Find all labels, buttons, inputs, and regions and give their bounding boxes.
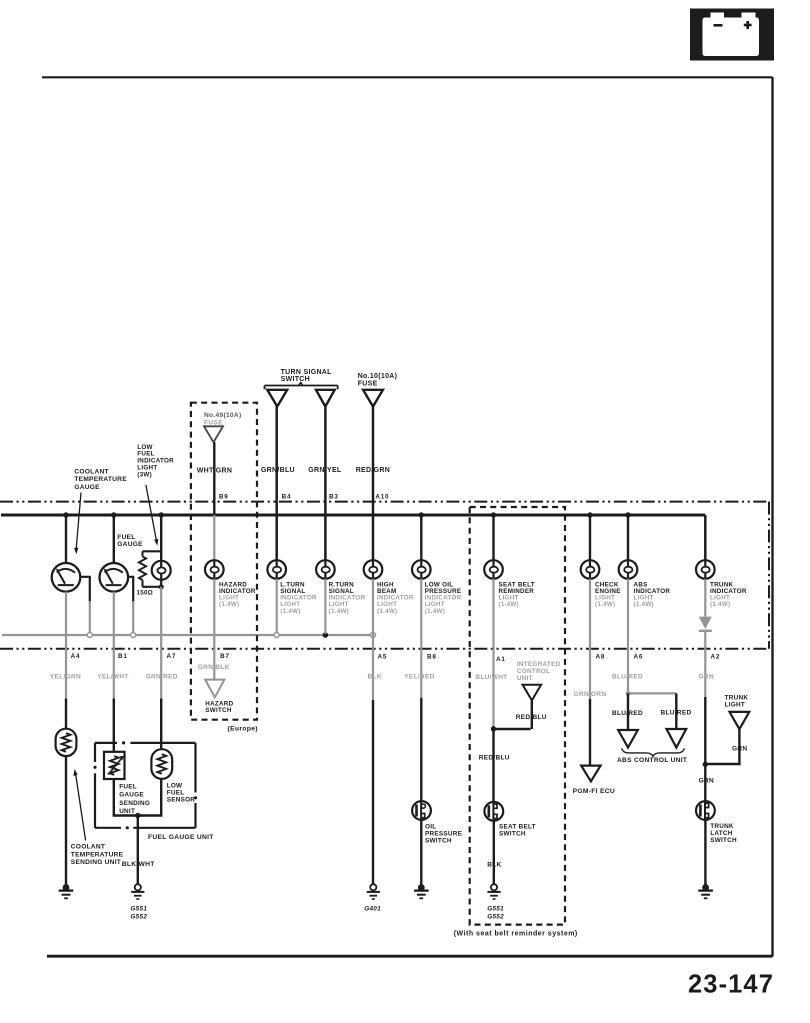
svg-text:SWITCH: SWITCH: [425, 838, 452, 845]
svg-text:YEL/RED: YEL/RED: [404, 673, 434, 680]
wire R turn bulb to gray bus: [324, 579, 326, 634]
svg-text:(1.4W): (1.4W): [634, 601, 654, 608]
svg-text:SWITCH: SWITCH: [499, 831, 526, 838]
wire BLU/RED right branch to ABS control unit: [661, 693, 692, 729]
svg-text:G552: G552: [487, 913, 504, 920]
svg-text:GAUGE: GAUGE: [119, 792, 144, 799]
fuel gauge unit box: [93, 741, 214, 840]
svg-text:BLU/RED: BLU/RED: [612, 673, 643, 680]
svg-text:FUEL GAUGE UNIT: FUEL GAUGE UNIT: [148, 834, 214, 841]
wire coolant sending unit to ground: [65, 756, 67, 884]
svg-text:UNIT: UNIT: [517, 675, 533, 682]
fuel gauge sending unit (variable resistor): [104, 752, 150, 815]
svg-text:GRN/BLU: GRN/BLU: [261, 467, 295, 474]
label L turn signal indicator light: [280, 581, 317, 614]
svg-text:YEL/GRN: YEL/GRN: [50, 673, 81, 680]
svg-text:(1.4W): (1.4W): [329, 608, 349, 615]
svg-text:TRUNK: TRUNK: [725, 695, 749, 702]
svg-text:A2: A2: [711, 654, 721, 661]
wire YEL/RED to B8 oil pressure switch: [404, 579, 436, 802]
svg-text:COOLANT: COOLANT: [74, 468, 108, 475]
illumination return bus wire (gray): [2, 634, 373, 636]
fuse No.49(10A): [204, 412, 241, 442]
wire YEL/GRN to A4 (coolant temp sending unit): [50, 592, 81, 730]
ground G401: [364, 884, 381, 913]
wire BLK high beam to ground: [368, 579, 388, 884]
svg-text:GRN/BLK: GRN/BLK: [198, 664, 230, 671]
wire BLU/RED to A6 ABS control unit: [612, 579, 643, 694]
wire YEL/WHT to B1 (fuel gauge sending unit): [97, 592, 128, 753]
svg-text:(With seat belt reminder syste: (With seat belt reminder system): [454, 931, 578, 938]
svg-text:(1.4W): (1.4W): [280, 608, 300, 615]
svg-text:GRN: GRN: [699, 673, 714, 680]
label R turn signal indicator light: [329, 581, 366, 614]
svg-text:SEAT BELT: SEAT BELT: [499, 824, 536, 831]
turn signal switch label and bracket: [265, 369, 338, 389]
wire hazard bulb feed (gray below bus): [213, 515, 215, 561]
svg-text:GRN/ORN: GRN/ORN: [574, 691, 607, 698]
svg-text:A10: A10: [375, 494, 389, 501]
wire GRN/BLU to B4: [261, 407, 295, 561]
svg-text:LATCH: LATCH: [710, 830, 733, 837]
svg-text:G401: G401: [364, 906, 381, 913]
ABS wire split junction: [626, 691, 677, 696]
svg-text:TRUNK: TRUNK: [710, 823, 734, 830]
svg-text:(3W): (3W): [137, 471, 152, 478]
hazard switch connector triangle: [205, 680, 233, 714]
svg-text:SENDING: SENDING: [119, 800, 150, 807]
svg-text:23-147: 23-147: [688, 970, 774, 998]
trunk wire junction dot: [703, 762, 708, 767]
ground trunk latch switch: [698, 883, 713, 898]
trunk latch switch: [696, 801, 737, 844]
svg-text:BLU/RED: BLU/RED: [661, 710, 692, 717]
label integrated control unit: [517, 661, 561, 682]
resistor 150 ohm: [137, 551, 162, 596]
svg-text:WHT/GRN: WHT/GRN: [197, 468, 233, 475]
svg-text:ABS CONTROL UNIT: ABS CONTROL UNIT: [617, 757, 687, 764]
svg-text:B8: B8: [427, 654, 437, 661]
svg-text:GAUGE: GAUGE: [117, 541, 143, 548]
svg-text:FUSE: FUSE: [358, 381, 378, 388]
svg-text:B4: B4: [282, 494, 292, 501]
svg-text:BLK: BLK: [487, 861, 501, 868]
svg-text:(1.4W): (1.4W): [377, 608, 397, 615]
page number 23-147: [688, 970, 774, 998]
svg-text:A6: A6: [634, 654, 644, 661]
svg-text:GAUGE: GAUGE: [74, 484, 100, 491]
svg-text:SWITCH: SWITCH: [710, 837, 737, 844]
svg-text:BLU/WHT: BLU/WHT: [475, 674, 507, 681]
wire BLU/RED left branch to ABS control unit: [612, 693, 643, 730]
oil pressure switch: [412, 801, 463, 845]
seat belt reminder dashed box: [454, 507, 578, 938]
label fuel gauge: [117, 534, 143, 548]
hazard circuit dashed box (Europe): [191, 403, 258, 733]
wire GRN/YEL to B3: [308, 407, 342, 561]
coolant temperature sending unit: [56, 729, 77, 756]
ground coolant temperature sending unit: [59, 883, 74, 898]
wire BLU/WHT to A1 seat belt switch: [475, 579, 509, 802]
fuse No.10(10A): [358, 373, 398, 406]
svg-text:CONTROL: CONTROL: [517, 668, 550, 675]
fuel gauge: [100, 515, 134, 634]
low oil pressure indicator light bulb: [412, 515, 431, 579]
label low fuel indicator light (3W): [137, 444, 174, 546]
low fuel indicator light bulb: [152, 515, 171, 589]
svg-text:A8: A8: [596, 654, 606, 661]
svg-text:INTEGRATED: INTEGRATED: [517, 661, 561, 668]
svg-text:RED/GRN: RED/GRN: [356, 467, 390, 474]
L turn signal indicator light bulb: [267, 560, 286, 580]
label check engine light: [595, 581, 621, 608]
svg-text:RED/BLU: RED/BLU: [479, 755, 510, 762]
svg-text:G552: G552: [130, 914, 147, 921]
trunk indicator light bulb: [696, 560, 715, 580]
svg-text:SENSOR: SENSOR: [167, 797, 196, 804]
svg-text:(Europe): (Europe): [228, 725, 258, 732]
svg-text:B3: B3: [329, 494, 339, 501]
svg-text:YEL/WHT: YEL/WHT: [97, 673, 128, 680]
svg-text:TURN SIGNAL: TURN SIGNAL: [281, 369, 333, 376]
svg-text:BLU/RED: BLU/RED: [612, 710, 643, 717]
wire BLK/WHT to ground G551 G552: [113, 779, 163, 884]
svg-text:OIL: OIL: [425, 824, 436, 831]
coolant temperature gauge: [52, 515, 90, 634]
gray bus connector rings and junction dot: [87, 632, 375, 638]
svg-text:FUEL: FUEL: [167, 790, 185, 797]
svg-text:GRN: GRN: [699, 778, 714, 785]
svg-text:A5: A5: [378, 653, 388, 660]
hazard indicator light bulb: [205, 560, 224, 580]
svg-text:B1: B1: [118, 653, 128, 660]
low fuel sensor: [151, 749, 195, 804]
label coolant temperature sending unit: [71, 769, 124, 866]
svg-text:G551: G551: [487, 906, 504, 913]
wire GRN/BLK to B7 hazard switch: [198, 579, 230, 680]
wire L turn bulb to gray bus: [276, 579, 278, 633]
wire trunk latch switch to ground: [704, 820, 706, 885]
label coolant temperature gauge: [74, 468, 127, 554]
svg-text:A1: A1: [496, 656, 506, 663]
label hazard indicator light: [219, 581, 256, 608]
battery symbol: [690, 9, 774, 61]
svg-text:(1.4W): (1.4W): [710, 601, 730, 608]
bus junction dots: [63, 512, 630, 517]
ABS indicator light bulb: [619, 515, 638, 579]
ignition hot bus wire: [1, 515, 705, 561]
seat belt reminder light bulb: [484, 515, 503, 579]
svg-text:TEMPERATURE: TEMPERATURE: [74, 476, 127, 483]
wire RED/BLU from integrated control unit: [491, 700, 547, 731]
svg-text:FUEL: FUEL: [117, 534, 135, 541]
check engine light bulb: [581, 515, 600, 579]
ABS control unit connector triangles: [617, 729, 687, 764]
svg-text:LIGHT: LIGHT: [725, 702, 745, 709]
trunk light connector triangle: [705, 695, 749, 765]
diode (trunk indicator): [699, 617, 712, 631]
svg-text:150Ω: 150Ω: [137, 590, 154, 597]
dash-dot instrument panel boundary upper: [0, 501, 769, 503]
svg-text:No.10(10A): No.10(10A): [358, 373, 398, 380]
svg-text:B9: B9: [219, 493, 229, 500]
svg-text:SENDING UNIT: SENDING UNIT: [71, 859, 121, 866]
svg-text:(1.4W): (1.4W): [425, 608, 445, 615]
label trunk indicator light: [710, 581, 747, 608]
svg-text:GRN/RED: GRN/RED: [146, 673, 178, 680]
high beam indicator light bulb: [364, 560, 383, 580]
wire GRN to A2 trunk latch switch: [699, 579, 721, 802]
svg-text:GRN/YEL: GRN/YEL: [308, 467, 342, 474]
PGM-FI ECU connector triangle: [573, 766, 615, 795]
wire GRN/ORN to A8 PGM-FI ECU: [574, 579, 607, 766]
svg-text:FUSE: FUSE: [204, 419, 223, 426]
wire RED/GRN to A10: [356, 407, 390, 561]
svg-text:FUEL: FUEL: [119, 783, 137, 790]
svg-text:LOW: LOW: [167, 783, 183, 790]
label low oil pressure indicator light: [425, 581, 462, 614]
svg-text:No.49(10A): No.49(10A): [204, 412, 241, 419]
svg-text:(1.4W): (1.4W): [595, 601, 615, 608]
svg-text:BLK/WHT: BLK/WHT: [122, 861, 156, 868]
svg-text:GRN: GRN: [732, 745, 747, 752]
svg-text:SWITCH: SWITCH: [281, 376, 310, 383]
ground G551 G552 (seat belt switch): [487, 884, 504, 920]
svg-text:UNIT: UNIT: [119, 808, 135, 815]
integrated control unit connector triangle: [523, 685, 542, 701]
R turn signal indicator light bulb: [316, 560, 335, 580]
svg-text:B7: B7: [220, 653, 230, 660]
dash-dot instrument panel boundary right: [768, 502, 770, 649]
wire WHT/GRN to B9: [197, 442, 233, 515]
seat belt switch: [484, 802, 535, 838]
label high beam indicator light: [377, 581, 414, 614]
svg-text:BLK: BLK: [368, 673, 382, 680]
label seat belt reminder light: [499, 581, 535, 608]
ground oil pressure switch: [414, 883, 429, 898]
connector triangle B3 (turn signal switch right): [316, 390, 335, 407]
dash-dot instrument panel boundary lower: [0, 648, 769, 650]
svg-text:SWITCH: SWITCH: [205, 707, 232, 714]
svg-text:PGM-FI ECU: PGM-FI ECU: [573, 788, 615, 795]
svg-text:(1.4W): (1.4W): [219, 601, 239, 608]
svg-text:(1.4W): (1.4W): [499, 601, 519, 608]
ground G551 G552 (fuel gauge unit): [130, 884, 147, 920]
label ABS indicator light: [634, 581, 671, 608]
connector triangle B4 (turn signal switch left): [267, 390, 287, 407]
svg-text:A7: A7: [167, 653, 177, 660]
svg-text:TEMPERATURE: TEMPERATURE: [71, 851, 124, 858]
wire oil pressure switch to ground: [420, 820, 422, 884]
svg-text:G551: G551: [130, 906, 147, 913]
wire BLK seat belt switch to ground: [487, 821, 501, 884]
svg-text:COOLANT: COOLANT: [71, 843, 105, 850]
svg-text:A4: A4: [71, 653, 81, 660]
svg-text:PRESSURE: PRESSURE: [425, 831, 463, 838]
wire GRN/RED to A7 (low fuel sensor): [146, 587, 178, 750]
